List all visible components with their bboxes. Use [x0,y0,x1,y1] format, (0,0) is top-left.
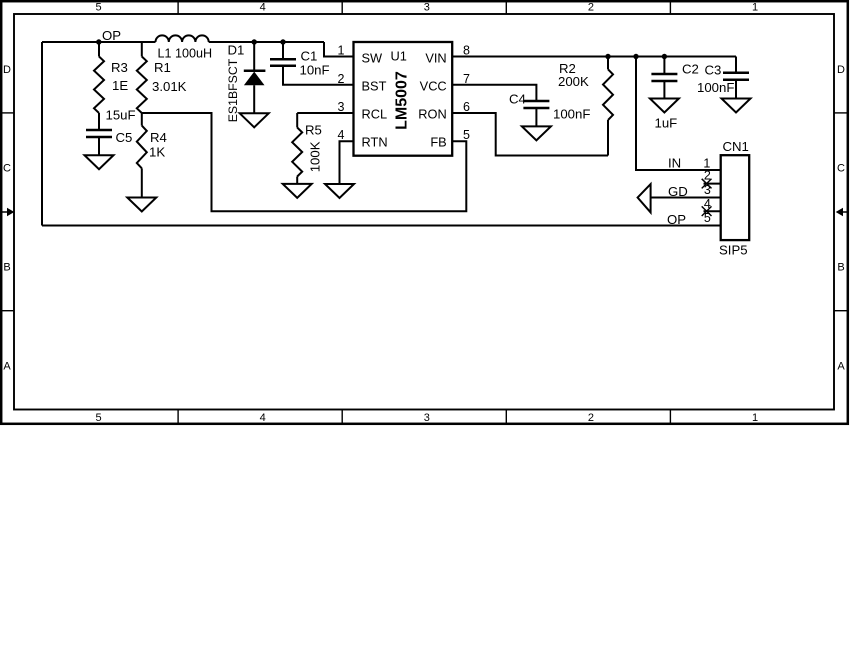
svg-text:4: 4 [260,2,266,14]
connector CN1 box [721,155,750,240]
svg-text:B: B [3,262,10,274]
capacitor C5 [86,129,112,132]
svg-text:3: 3 [424,2,430,14]
svg-text:5: 5 [463,128,470,142]
svg-text:VCC: VCC [420,78,447,93]
ground D1 [240,113,269,127]
svg-text:U1: U1 [391,48,407,63]
wire RON pin 6 to R2 bottom [452,113,608,156]
resistor R3 [98,42,100,57]
svg-text:D: D [3,64,11,76]
svg-text:OP: OP [667,212,686,227]
capacitor C4 [523,100,549,103]
svg-text:100nF: 100nF [697,80,734,95]
svg-text:8: 8 [463,44,470,58]
svg-text:3.01K: 3.01K [152,79,187,94]
svg-text:C3: C3 [705,63,722,78]
wire BST C1 to pin 2 [283,66,354,85]
resistor R5 [296,113,298,128]
svg-text:OP: OP [102,28,121,43]
diode D1 [253,42,255,71]
capacitor C1 [282,42,284,59]
svg-text:R4: R4 [150,130,167,145]
svg-text:FB: FB [430,135,446,150]
svg-text:100K: 100K [308,141,323,172]
ground C3 [722,99,751,113]
junction C1 [280,39,285,44]
svg-text:5: 5 [96,2,102,14]
GD off-page arrow [638,184,651,212]
svg-text:SW: SW [362,51,384,66]
ground R4 [127,198,156,212]
svg-text:RTN: RTN [362,135,388,150]
junction R2 top [605,54,610,59]
svg-text:1: 1 [338,44,345,58]
svg-text:7: 7 [463,72,470,86]
svg-text:R3: R3 [111,60,128,75]
wire pin 1 step to SW [324,42,354,57]
resistor R2 [607,57,609,70]
wire OP bottom bus [42,225,721,227]
svg-text:BST: BST [362,78,387,93]
svg-text:5: 5 [96,412,102,424]
svg-text:B: B [837,262,844,274]
svg-text:D1: D1 [228,43,245,58]
svg-text:2: 2 [588,2,594,14]
wire RCL pin 3 to R5 [297,112,353,114]
svg-text:RCL: RCL [362,107,388,122]
svg-text:4: 4 [260,412,266,424]
wire RTN pin 4 to ground [340,141,354,184]
wire SW node rail right of L1 [209,41,324,43]
svg-text:C: C [3,163,11,175]
ground C5 [85,155,114,169]
svg-text:C1: C1 [301,49,318,64]
svg-text:4: 4 [338,128,345,142]
svg-text:3: 3 [424,412,430,424]
svg-text:VIN: VIN [425,51,446,66]
inductor L1 [156,35,209,42]
svg-text:D: D [837,64,845,76]
svg-text:IN: IN [668,156,681,171]
capacitor C2 [663,57,665,74]
sheet arrow right [843,211,848,213]
junction D1 cathode [252,39,257,44]
svg-text:1: 1 [752,2,758,14]
svg-text:L1 100uH: L1 100uH [158,46,213,60]
svg-text:A: A [3,361,11,373]
svg-text:2: 2 [338,72,345,86]
svg-text:1E: 1E [112,78,128,93]
wire IN net to CN1 pin 1 [636,57,721,171]
IC U1 LM5007 box [354,42,453,156]
ground RTN [325,184,354,198]
capacitor C3 [735,57,737,73]
svg-text:3: 3 [338,100,345,114]
wire FB feedback path [142,113,467,211]
wire VCC pin 7 to C4 [452,85,536,100]
wire GD to CN1 pin 3 [651,197,721,199]
junction IN net [633,54,638,59]
ground C4 [522,126,551,140]
svg-text:SIP5: SIP5 [719,243,748,258]
svg-text:GD: GD [668,184,688,199]
svg-text:R5: R5 [305,123,322,138]
svg-text:100nF: 100nF [553,107,590,122]
svg-text:6: 6 [463,100,470,114]
resistor R4 [141,113,143,126]
svg-text:RON: RON [418,107,446,122]
svg-text:2: 2 [588,412,594,424]
sheet arrow left [2,211,7,213]
svg-text:C: C [837,163,845,175]
svg-text:C2: C2 [682,62,699,77]
svg-text:LM5007: LM5007 [393,71,410,130]
svg-text:1uF: 1uF [655,116,678,131]
svg-text:1: 1 [752,412,758,424]
ground R5 [283,184,312,198]
svg-text:C4: C4 [509,91,526,106]
junction C2 top [662,54,667,59]
wire SW node top rail [42,41,156,43]
svg-text:10nF: 10nF [300,63,330,78]
wire OP left vertical bus [41,42,43,226]
svg-text:15uF: 15uF [106,108,136,123]
wire VIN rail pin 8 [452,56,736,58]
svg-text:200K: 200K [558,74,589,89]
svg-text:R1: R1 [154,60,171,75]
svg-text:C5: C5 [116,130,133,145]
junction OP [96,39,101,44]
resistor R1 [141,42,143,57]
ground C2 [650,99,679,113]
svg-text:A: A [837,361,845,373]
CN1 pin 2 stub no-connect [704,183,721,185]
svg-text:CN1: CN1 [723,139,749,154]
CN1 pin 4 stub no-connect [704,210,721,212]
svg-text:1K: 1K [149,144,165,159]
